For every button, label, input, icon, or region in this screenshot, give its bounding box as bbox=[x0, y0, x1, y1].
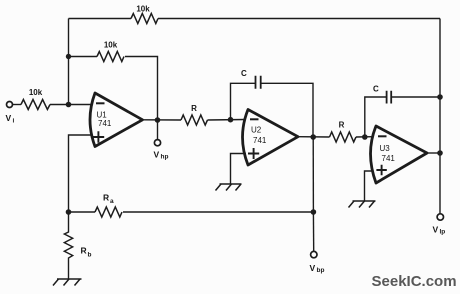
wire Ra row bbox=[69, 211, 96, 213]
resistor Rb bbox=[64, 212, 91, 279]
svg-text:R: R bbox=[81, 246, 87, 256]
svg-text:R: R bbox=[339, 121, 345, 130]
svg-text:C: C bbox=[373, 85, 379, 94]
node U3 input bbox=[362, 134, 368, 140]
svg-text:741: 741 bbox=[253, 136, 267, 145]
terminal Vhp bbox=[154, 140, 169, 161]
capacitor C3 bbox=[373, 85, 391, 104]
svg-text:U2: U2 bbox=[251, 126, 262, 135]
svg-text:741: 741 bbox=[98, 119, 112, 128]
svg-text:R: R bbox=[103, 193, 109, 203]
wire U2 output down to Ra row bbox=[312, 137, 314, 212]
terminal Vbp bbox=[310, 251, 325, 274]
node summing junction bbox=[66, 102, 72, 108]
wire right column bbox=[439, 19, 441, 214]
svg-text:V: V bbox=[433, 225, 439, 235]
wire R1 to U2 input node bbox=[208, 119, 246, 122]
node U2 input bbox=[228, 117, 234, 123]
svg-text:10k: 10k bbox=[104, 41, 118, 50]
svg-text:U3: U3 bbox=[380, 144, 391, 153]
wire U3 plus input bbox=[365, 171, 373, 201]
wire Vi to resistor bbox=[13, 104, 22, 106]
terminal Vlp bbox=[433, 214, 446, 236]
wire top feedback right segment bbox=[158, 18, 440, 20]
wire C2 loop left bbox=[231, 83, 256, 119]
svg-text:V: V bbox=[6, 113, 12, 123]
node Ra junction right bbox=[311, 209, 317, 215]
terminal Vi bbox=[6, 102, 15, 125]
wire C2 loop right bbox=[261, 83, 313, 137]
svg-text:b: b bbox=[88, 252, 92, 259]
ground U3 bbox=[349, 201, 376, 208]
svg-text:bp: bp bbox=[317, 267, 325, 274]
op-amp U1 bbox=[90, 93, 143, 147]
wire C3 loop left bbox=[365, 97, 387, 137]
svg-text:SeekIC.com: SeekIC.com bbox=[372, 273, 457, 290]
wire left column upper bbox=[68, 19, 70, 105]
resistor Ra bbox=[95, 193, 122, 218]
wire top feedback left segment bbox=[69, 18, 132, 20]
op-amp U3 bbox=[371, 126, 428, 183]
wire U2 output bbox=[298, 136, 330, 138]
node U1 output bbox=[155, 117, 161, 123]
ground Rb bbox=[53, 279, 82, 286]
svg-text:R: R bbox=[191, 104, 197, 113]
wire U3 output bbox=[427, 152, 440, 154]
wire down to Vbp terminal bbox=[312, 212, 314, 251]
capacitor C2 bbox=[241, 69, 261, 89]
wire U2 plus input bbox=[231, 154, 247, 185]
node feedback mid bbox=[66, 54, 71, 59]
svg-text:C: C bbox=[241, 69, 247, 78]
resistor R2 bbox=[330, 121, 356, 143]
svg-text:V: V bbox=[154, 150, 160, 160]
wire U1 plus input bbox=[69, 135, 93, 212]
wire R2 to U3 input node bbox=[356, 136, 373, 138]
svg-text:V: V bbox=[310, 263, 316, 273]
node U3 output bbox=[437, 150, 443, 156]
node Ra junction left bbox=[66, 209, 72, 215]
wire to Vhp terminal bbox=[157, 120, 159, 140]
wire input to summing node bbox=[50, 104, 92, 106]
svg-text:10k: 10k bbox=[29, 88, 43, 97]
wire second feedback left bbox=[69, 56, 98, 58]
watermark SeekIC.com bbox=[372, 273, 457, 290]
resistor R1 bbox=[181, 104, 207, 125]
node U2 output bbox=[310, 134, 316, 140]
svg-text:hp: hp bbox=[161, 154, 169, 161]
wire Ra to U2 output column bbox=[123, 211, 313, 213]
svg-text:741: 741 bbox=[382, 154, 396, 163]
svg-text:10k: 10k bbox=[136, 5, 150, 14]
node C3 right bbox=[437, 94, 443, 100]
wire U1 output bbox=[143, 119, 182, 121]
wire C3 loop right bbox=[391, 96, 440, 98]
resistor R10k mid bbox=[97, 41, 124, 62]
resistor R10k input bbox=[21, 88, 50, 110]
svg-text:lp: lp bbox=[440, 229, 446, 236]
wire second feedback right bbox=[125, 57, 158, 121]
ground U2 bbox=[216, 184, 242, 191]
op-amp U2 bbox=[243, 110, 299, 166]
svg-text:a: a bbox=[110, 198, 114, 205]
svg-text:i: i bbox=[13, 118, 15, 125]
resistor R10k top bbox=[131, 5, 158, 24]
